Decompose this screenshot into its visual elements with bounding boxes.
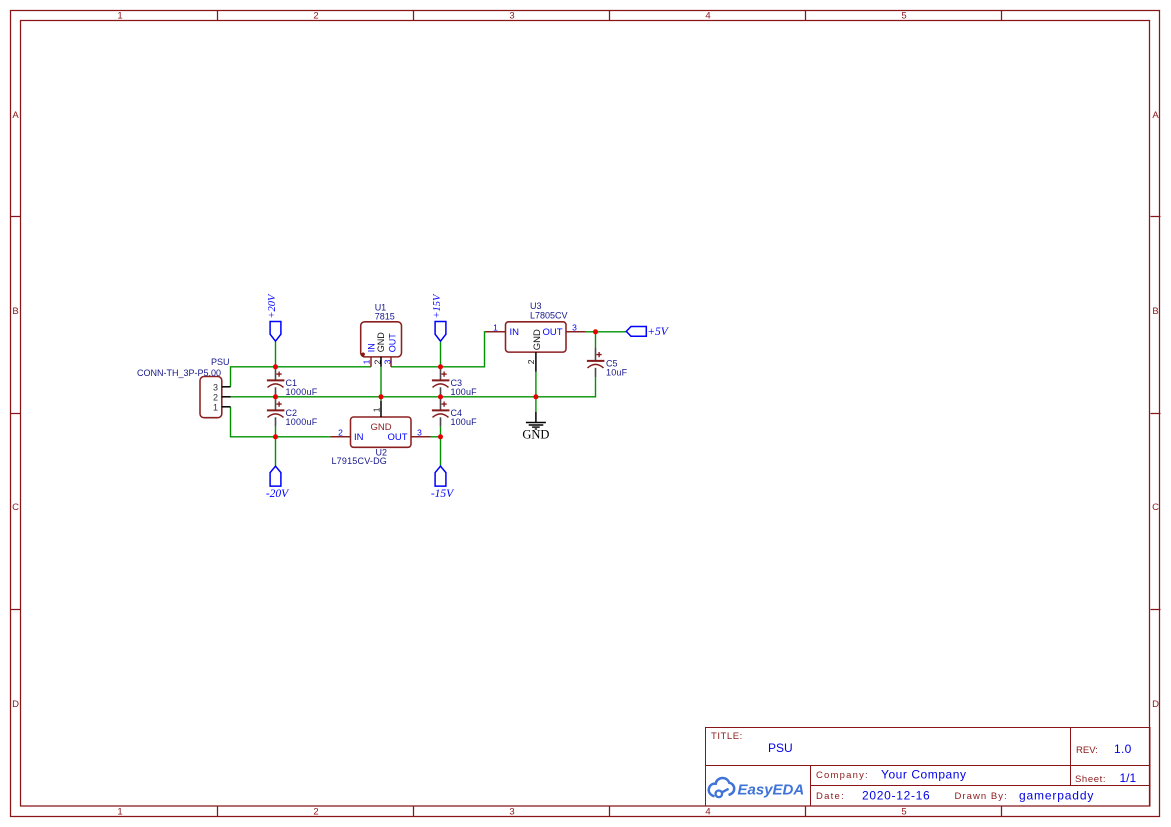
- svg-text:TITLE:: TITLE:: [711, 731, 743, 742]
- svg-text:2: 2: [213, 392, 218, 402]
- svg-text:-20V: -20V: [266, 488, 290, 500]
- wire U2 OUT to -15V node: [431, 436, 441, 438]
- net flag +15V: [432, 293, 446, 341]
- svg-text:Company:: Company:: [816, 770, 869, 781]
- svg-text:3: 3: [572, 323, 577, 333]
- svg-text:1.0: 1.0: [1114, 742, 1132, 756]
- wire U3 GND to ground: [535, 372, 537, 412]
- svg-text:2: 2: [338, 428, 343, 438]
- junction -20V/C2: [273, 434, 278, 439]
- svg-text:A: A: [1152, 110, 1159, 121]
- svg-text:CONN-TH_3P-P5.00: CONN-TH_3P-P5.00: [137, 368, 221, 378]
- svg-text:L7915CV-DG: L7915CV-DG: [331, 456, 387, 466]
- svg-text:100uF: 100uF: [451, 417, 478, 427]
- svg-text:GND: GND: [376, 332, 386, 353]
- svg-text:+20V: +20V: [267, 293, 278, 319]
- svg-text:B: B: [12, 306, 18, 317]
- capacitor C5: [587, 347, 628, 377]
- regulator U2 L7915CV-DG: [331, 401, 431, 466]
- svg-text:1: 1: [371, 407, 381, 412]
- svg-text:OUT: OUT: [542, 327, 562, 338]
- svg-text:PSU: PSU: [768, 741, 793, 755]
- svg-text:3: 3: [383, 359, 393, 364]
- svg-text:C: C: [1152, 502, 1159, 513]
- regulator U3 L7805CV: [486, 301, 586, 372]
- wire U1 OUT to U3 IN (+15V net): [391, 332, 486, 367]
- capacitor C4: [432, 397, 477, 437]
- svg-text:2: 2: [313, 807, 318, 818]
- svg-text:L7805CV: L7805CV: [530, 310, 568, 320]
- svg-text:1: 1: [213, 402, 218, 412]
- svg-text:1000uF: 1000uF: [286, 417, 318, 427]
- svg-text:PSU: PSU: [211, 357, 230, 367]
- svg-text:2020-12-16: 2020-12-16: [862, 789, 930, 803]
- U3 pin 2 GND: [535, 352, 537, 372]
- svg-text:IN: IN: [366, 343, 376, 352]
- junction +5V/C5: [593, 329, 598, 334]
- net flag +5V: [626, 326, 670, 338]
- wire U3 OUT to +5V flag: [586, 331, 627, 333]
- U2 pin 2 IN: [331, 436, 351, 438]
- svg-text:IN: IN: [510, 327, 520, 338]
- svg-text:D: D: [1152, 699, 1159, 710]
- wire -20V flag drop: [275, 437, 277, 468]
- svg-text:3: 3: [213, 382, 218, 392]
- svg-text:1: 1: [117, 11, 122, 22]
- svg-text:7815: 7815: [375, 312, 395, 322]
- svg-text:+5V: +5V: [647, 326, 670, 338]
- U3 pin 3 OUT: [566, 331, 586, 333]
- wire -15V node to flag: [440, 437, 442, 468]
- svg-text:1/1: 1/1: [1120, 771, 1137, 785]
- svg-text:4: 4: [705, 11, 710, 22]
- junction +20V/C1: [273, 364, 278, 369]
- svg-text:C: C: [12, 502, 19, 513]
- net flag +20V: [267, 293, 281, 341]
- capacitor C1: [267, 367, 318, 397]
- svg-text:5: 5: [901, 11, 906, 22]
- svg-text:+15V: +15V: [432, 293, 443, 319]
- U1 pin 1 IN: [370, 357, 372, 367]
- title block: [706, 728, 1151, 807]
- wire PSU pin 1 to -20V rail: [231, 407, 331, 437]
- svg-text:10uF: 10uF: [606, 367, 628, 377]
- svg-text:4: 4: [705, 807, 710, 818]
- svg-text:1000uF: 1000uF: [286, 387, 318, 397]
- svg-text:2: 2: [526, 359, 536, 364]
- svg-text:3: 3: [509, 11, 514, 22]
- PSU pin 3: [222, 386, 231, 388]
- svg-text:Drawn By:: Drawn By:: [955, 791, 1008, 802]
- svg-text:GND: GND: [532, 329, 543, 350]
- svg-text:OUT: OUT: [387, 432, 407, 443]
- svg-text:gamerpaddy: gamerpaddy: [1019, 789, 1094, 803]
- svg-text:Your Company: Your Company: [881, 768, 967, 782]
- connector PSU CONN-TH_3P-P5.00: [137, 357, 231, 418]
- wire PSU pin 3 to +20V node: [231, 367, 372, 387]
- wire GND rail: [231, 377, 596, 397]
- wire +15V flag drop: [440, 342, 442, 367]
- wire C5 top to +5V node: [595, 332, 597, 348]
- svg-text:5: 5: [901, 807, 906, 818]
- junction -15V/C4: [438, 434, 443, 439]
- svg-text:IN: IN: [354, 432, 364, 443]
- svg-text:1: 1: [493, 323, 498, 333]
- svg-text:B: B: [1152, 306, 1158, 317]
- svg-text:1: 1: [362, 359, 372, 364]
- ground symbol GND: [526, 412, 546, 429]
- net flag -15V: [431, 466, 455, 500]
- junction +15V/C3: [438, 364, 443, 369]
- svg-text:3: 3: [509, 807, 514, 818]
- svg-text:1: 1: [117, 807, 122, 818]
- U1 pin 3 OUT: [390, 357, 392, 367]
- junction U3 GND rail: [533, 394, 538, 399]
- svg-text:GND: GND: [522, 428, 549, 442]
- U2 pin 1 GND: [380, 401, 382, 417]
- junction U1-U2 GND rail: [379, 394, 384, 399]
- svg-text:OUT: OUT: [387, 333, 397, 353]
- svg-text:A: A: [12, 110, 19, 121]
- U1 pin 1 mark dot: [361, 353, 365, 357]
- EasyEDA logo: [709, 778, 734, 797]
- regulator U1 7815: [361, 303, 402, 367]
- PSU pin 1: [222, 406, 231, 408]
- svg-text:EasyEDA: EasyEDA: [738, 781, 805, 798]
- svg-text:Date:: Date:: [816, 791, 845, 802]
- capacitor C2: [267, 397, 318, 437]
- svg-text:100uF: 100uF: [451, 387, 478, 397]
- net flag -20V: [266, 466, 290, 500]
- svg-text:-15V: -15V: [431, 488, 455, 500]
- U1 pin 2 GND: [380, 357, 382, 367]
- U2 pin 3 OUT: [411, 436, 431, 438]
- wire U1 GND / U2 GND vertical: [380, 367, 382, 401]
- wire +20V flag drop: [275, 342, 277, 367]
- svg-text:3: 3: [417, 428, 422, 438]
- svg-text:REV:: REV:: [1076, 745, 1098, 756]
- capacitor C3: [432, 367, 477, 397]
- junction C3/C4 GND rail: [438, 394, 443, 399]
- svg-text:2: 2: [313, 11, 318, 22]
- junction C1/C2 GND rail: [273, 394, 278, 399]
- U3 pin 1 IN: [486, 331, 506, 333]
- PSU pin 2: [222, 396, 231, 398]
- svg-text:Sheet:: Sheet:: [1075, 774, 1106, 785]
- svg-text:D: D: [12, 699, 19, 710]
- svg-text:2: 2: [372, 359, 382, 364]
